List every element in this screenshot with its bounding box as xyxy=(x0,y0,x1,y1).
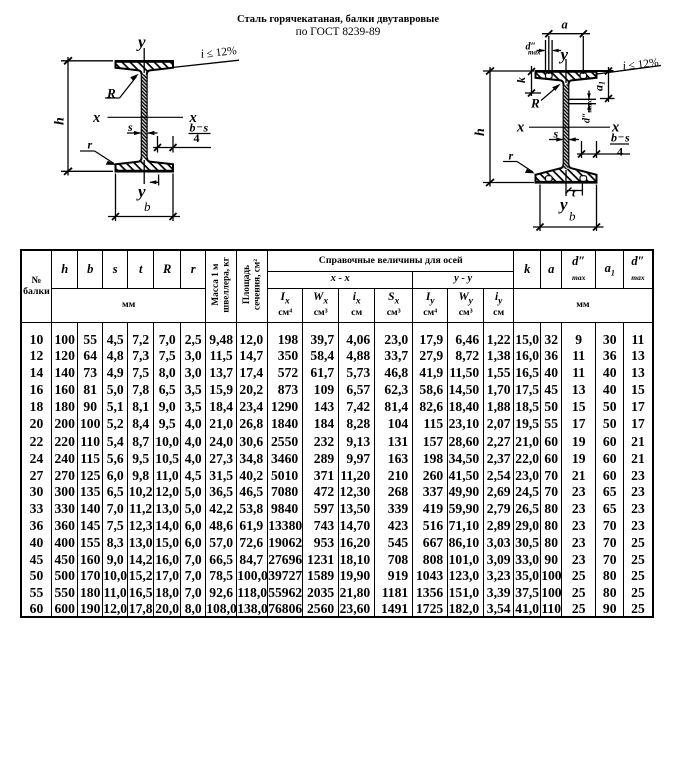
svg-text:b: b xyxy=(569,209,576,224)
svg-text:≤ 12%: ≤ 12% xyxy=(628,57,660,73)
right flange hole top-left xyxy=(546,73,553,79)
right R leader xyxy=(541,86,559,101)
svg-text:−: − xyxy=(618,132,624,144)
left x-x axis xyxy=(108,116,184,118)
right r arrowhead xyxy=(525,169,535,174)
left s arrows xyxy=(127,132,141,134)
svg-text:s: s xyxy=(127,120,133,134)
right beam I-section xyxy=(536,71,597,183)
svg-text:≤ 12%: ≤ 12% xyxy=(206,45,238,60)
left bottom bracket xyxy=(158,175,160,186)
svg-text:s: s xyxy=(553,127,559,141)
right x-x axis xyxy=(529,126,610,128)
left slope leader xyxy=(172,60,239,67)
right r leader with shelf xyxy=(503,161,517,163)
left r arrowhead xyxy=(106,161,116,165)
svg-text:b: b xyxy=(144,199,151,214)
svg-text:r: r xyxy=(509,149,514,163)
right beam y centerline xyxy=(565,59,567,83)
left beam I-section xyxy=(116,61,174,172)
left b dimension xyxy=(115,174,117,222)
right beam thick top edge xyxy=(535,70,597,73)
right h dimension xyxy=(489,67,491,187)
svg-text:h: h xyxy=(473,128,488,136)
svg-text:a: a xyxy=(562,18,568,32)
left R leader with shelf xyxy=(105,97,120,99)
svg-text:4: 4 xyxy=(194,131,200,145)
svg-text:y: y xyxy=(136,33,146,52)
svg-text:y: y xyxy=(559,45,569,64)
svg-text:i: i xyxy=(622,59,628,73)
right d-max web arrowheads xyxy=(587,93,591,99)
left (b-s)/4 dimension xyxy=(157,136,159,153)
right slope leader xyxy=(597,66,661,75)
right flange hole bottom-right xyxy=(580,176,587,182)
svg-text:x: x xyxy=(92,110,100,126)
right d-max top dimension lines xyxy=(545,40,547,70)
left s arrowheads xyxy=(134,131,142,135)
left r leader with shelf xyxy=(80,150,95,152)
svg-text:R: R xyxy=(106,86,116,101)
svg-text:t: t xyxy=(572,186,576,200)
right slope label xyxy=(622,55,660,73)
left slope label xyxy=(200,43,238,61)
svg-text:s: s xyxy=(624,131,630,145)
svg-text:k: k xyxy=(514,77,528,83)
right (b-s)/4 dimension xyxy=(581,141,583,158)
left beam thick top edge xyxy=(115,60,174,63)
left beam web dense hatch xyxy=(142,75,147,159)
right s arrowheads xyxy=(556,137,563,141)
left beam y centerline xyxy=(143,48,145,73)
left beam thick bottom edge xyxy=(115,170,174,173)
right t bracket xyxy=(581,184,583,196)
svg-text:i: i xyxy=(200,47,206,61)
table xyxy=(20,249,654,618)
right s arrows xyxy=(549,139,562,141)
right flange hole top-right xyxy=(580,73,587,79)
right flange hole bottom-left xyxy=(546,176,553,182)
svg-text:max: max xyxy=(528,49,541,57)
left R arrowhead xyxy=(130,74,139,81)
right d-max top arrowheads xyxy=(539,49,546,53)
svg-text:a1: a1 xyxy=(592,81,607,91)
svg-text:d″max: d″max xyxy=(582,100,594,123)
right k dimension xyxy=(531,66,533,96)
svg-text:s: s xyxy=(203,121,209,135)
left h dimension xyxy=(67,57,69,176)
right beam thick bottom edge xyxy=(535,181,597,184)
right R arrowhead xyxy=(552,84,561,91)
right a dimension xyxy=(542,33,590,35)
svg-text:x: x xyxy=(516,120,524,136)
svg-text:r: r xyxy=(88,138,93,152)
right beam web dense hatch xyxy=(564,85,568,170)
left bracket arrowhead xyxy=(149,180,156,184)
right b dimension xyxy=(539,185,541,232)
svg-text:b: b xyxy=(611,131,617,145)
svg-text:4: 4 xyxy=(617,145,623,159)
right d-max web dimension xyxy=(568,98,596,100)
right a1 dimension xyxy=(597,70,614,72)
svg-text:y: y xyxy=(558,195,568,214)
svg-text:R: R xyxy=(530,96,540,111)
svg-text:h: h xyxy=(53,117,68,125)
